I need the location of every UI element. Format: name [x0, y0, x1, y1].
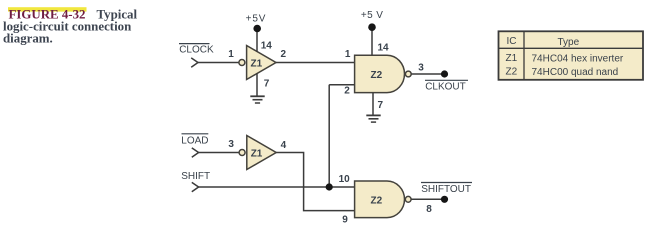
wire Z1b output to Z2b pin 9 (L-shape) [276, 153, 354, 211]
output bubble Z2b [405, 196, 411, 202]
wire SHIFT to Z2b pin 10 [199, 186, 355, 188]
svg-text:CLKOUT: CLKOUT [425, 81, 466, 92]
wire LOAD to Z1b input bubble [199, 152, 239, 154]
svg-text:Z2: Z2 [506, 67, 518, 78]
nand gate Z2a (74HC00) [355, 55, 405, 92]
SHIFTOUT terminal dot [441, 196, 448, 203]
node CLOCK label [179, 44, 214, 56]
svg-text:Z1: Z1 [251, 149, 263, 160]
svg-text:IC: IC [507, 36, 517, 47]
pin 7 wire Z2a [372, 93, 374, 115]
inverter Z1b (74HC04) [247, 136, 276, 170]
pin 14 wire Z2a [371, 27, 373, 55]
svg-text:LOAD: LOAD [181, 136, 208, 147]
IC table [499, 31, 644, 80]
svg-text:14: 14 [378, 42, 390, 53]
svg-text:3: 3 [418, 62, 424, 73]
svg-text:8: 8 [426, 204, 432, 215]
pin 14 wire Z1a [256, 29, 258, 52]
svg-text:74HC04 hex inverter: 74HC04 hex inverter [532, 53, 624, 64]
svg-text:7: 7 [378, 100, 384, 111]
inverter Z1a input bubble [239, 60, 245, 66]
svg-text:SHIFT: SHIFT [181, 171, 210, 182]
svg-text:74HC00 quad nand: 74HC00 quad nand [532, 67, 619, 78]
svg-text:Z1: Z1 [506, 53, 518, 64]
svg-text:2: 2 [281, 49, 287, 60]
SHIFT input arrow [192, 182, 199, 191]
wire Z2a pin2 down to SHIFT junction [328, 85, 330, 187]
svg-text:2: 2 [344, 86, 350, 97]
svg-text:1: 1 [345, 49, 351, 60]
output bubble Z2a [405, 71, 411, 77]
svg-text:Z1: Z1 [251, 59, 263, 70]
wire CLOCK to Z1a input bubble [198, 62, 239, 64]
LOAD input arrow [192, 148, 199, 157]
svg-text:Z2: Z2 [371, 195, 383, 206]
svg-text:14: 14 [261, 41, 273, 52]
svg-text:1: 1 [228, 49, 234, 60]
pin 7 wire Z1a [256, 73, 258, 96]
inverter Z1a (74HC04) [247, 46, 276, 80]
output wire Z2a pin 3 [411, 73, 444, 75]
svg-text:SHIFTOUT: SHIFTOUT [421, 184, 471, 195]
svg-text:10: 10 [339, 174, 351, 185]
svg-text:CLOCK: CLOCK [179, 45, 214, 56]
caption highlight bar [8, 7, 87, 11]
svg-text:+5V: +5V [246, 14, 267, 25]
svg-text:9: 9 [342, 214, 348, 225]
node SHIFTOUT label [421, 183, 472, 196]
node LOAD label [181, 134, 208, 147]
junction dot SHIFT / Z2a pin2 [326, 183, 333, 190]
ground Z1a [250, 96, 264, 103]
svg-text:3: 3 [228, 139, 234, 150]
ground Z2a [366, 115, 380, 122]
svg-text:7: 7 [264, 79, 270, 90]
+5V terminal dot Z2a [368, 23, 376, 31]
wire Z1a output to Z2a pin1 [276, 62, 355, 64]
CLKOUT terminal dot [441, 70, 448, 77]
svg-text:4: 4 [281, 140, 287, 151]
pin 2 wire Z2a [329, 84, 354, 86]
svg-text:Type: Type [558, 37, 580, 48]
svg-text:diagram.: diagram. [3, 32, 53, 46]
output wire Z2b pin 8 [411, 198, 444, 200]
nand gate Z2b (74HC00) [355, 181, 405, 218]
+5V terminal dot Z1a [253, 25, 261, 33]
svg-text:Z2: Z2 [371, 70, 383, 81]
inverter Z1b bubble [239, 150, 245, 156]
svg-text:+5 V: +5 V [361, 10, 383, 21]
node CLKOUT label [425, 80, 468, 92]
CLOCK input arrow [191, 58, 198, 67]
